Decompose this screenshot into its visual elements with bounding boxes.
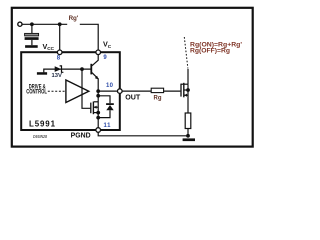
wire pin11 to ground rail (98, 132, 188, 136)
svg-text:11: 11 (104, 123, 112, 129)
capacitor C1 bottom plate (25, 37, 39, 40)
node bulk tie (186, 88, 190, 92)
outer frame (12, 8, 253, 147)
wire cap drop (31, 24, 33, 33)
wire resistor to ground (187, 129, 189, 136)
mosfet Q2 external (180, 84, 182, 97)
node Vcc junction (58, 22, 62, 26)
wire rail down (97, 91, 99, 130)
ground PGND (183, 138, 195, 141)
wire Rg' to Vc pin (80, 24, 98, 52)
pin 10 (118, 89, 123, 94)
node cap junction (30, 22, 34, 26)
wire drain/source rail (187, 84, 189, 113)
IC box L5991 (21, 52, 120, 130)
wire diode branch (98, 96, 110, 103)
svg-text:OUT: OUT (125, 93, 140, 102)
zener ground riser (44, 69, 92, 72)
dashed control link (48, 90, 65, 92)
resistor Rg (151, 88, 163, 92)
transistor Q1 NPN upper (90, 64, 92, 75)
input terminal (18, 22, 22, 26)
diode D1 (106, 103, 114, 105)
svg-text:Rg': Rg' (69, 15, 79, 22)
node source/bulk (96, 111, 100, 115)
node diode branch (96, 94, 100, 98)
wire top rail (22, 23, 67, 25)
svg-text:PGND: PGND (71, 130, 91, 139)
svg-text:Rg: Rg (154, 96, 162, 102)
svg-text:D93IN28: D93IN28 (33, 134, 47, 140)
svg-text:10: 10 (106, 83, 114, 89)
mosfet M1 internal (90, 103, 92, 114)
svg-text:VCC: VCC (43, 42, 55, 51)
svg-text:13V: 13V (52, 73, 63, 79)
op-amp driver triangle (66, 80, 89, 103)
wire OUT (98, 90, 151, 92)
pin 8 (57, 50, 62, 55)
ground cap (25, 45, 38, 48)
svg-text:Rg(OFF)=Rg: Rg(OFF)=Rg (190, 47, 230, 54)
svg-text:L5991: L5991 (29, 120, 56, 129)
zener diode 13V (55, 66, 62, 72)
node ground junction (186, 134, 190, 138)
wire Vcc pin drop (59, 24, 61, 52)
zener ground bar (37, 72, 47, 75)
node diode return (96, 116, 100, 120)
svg-text:CONTROL: CONTROL (26, 89, 47, 96)
wire base node down to gate (82, 69, 90, 108)
dashed annotation pointer (184, 37, 188, 69)
wire Rg to gate (164, 90, 181, 92)
resistor R source (185, 113, 191, 129)
node zener/base (80, 67, 84, 71)
capacitor C1 top plate (25, 33, 39, 36)
node OUT junction (96, 89, 100, 93)
svg-text:VC: VC (103, 40, 112, 49)
pin 11 (96, 128, 101, 133)
pin 9 (96, 50, 101, 55)
wire cap to ground (31, 40, 33, 45)
